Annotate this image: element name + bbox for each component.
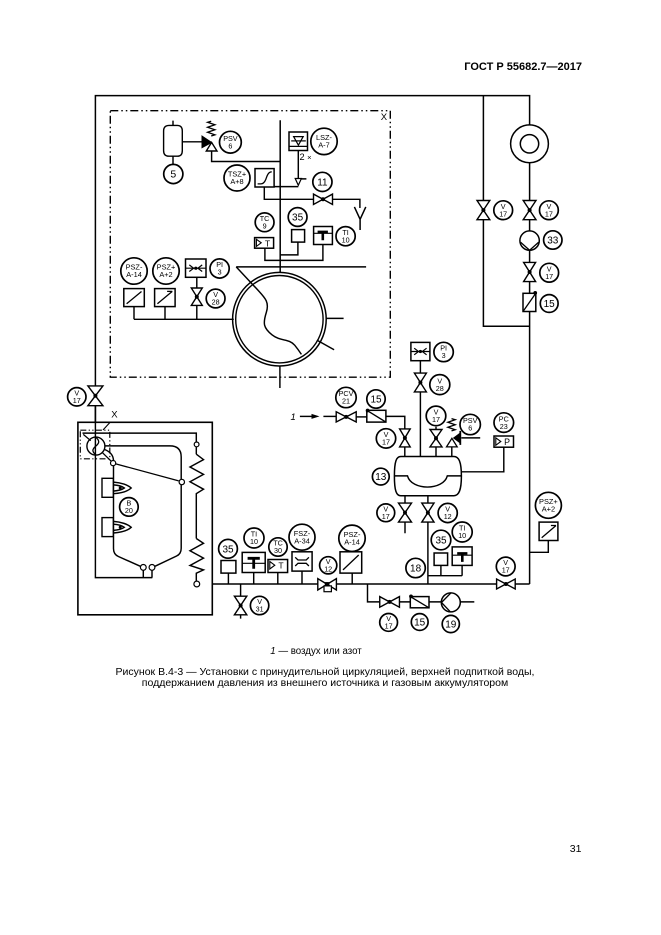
tag circle PC 23 [494,413,514,433]
tag circle TI 10 (steam) [336,227,355,246]
svg-text:15: 15 [414,618,426,629]
wire TC9 box to TT box [265,245,323,261]
svg-text:3: 3 [218,268,222,277]
vent to atmosphere symbol [354,207,365,230]
wire accumulator bottom stubs [405,496,428,584]
valve V17 (make-up line) [380,597,400,608]
safety valve PSV6 spring (accumulator) [448,419,455,431]
svg-text:17: 17 [73,396,81,405]
tag circle B 20 [120,498,139,517]
tag circle TC 30 [269,538,287,556]
safety valve PSV6a spring [208,121,215,136]
tag circle V 17 (riser upper) [540,201,559,220]
wire safety valve discharge to steam line [212,151,281,162]
wire filter to valve V17 (feed) [386,416,405,429]
node circle on jacket right [179,479,184,484]
svg-text:3: 3 [442,351,446,360]
svg-text:20: 20 [125,506,133,515]
svg-text:17: 17 [382,512,390,521]
tag circle 33 [544,231,562,249]
valve V12 (make-up control) [318,579,337,590]
filter 15 (feed line) [366,409,386,423]
wire left riser into boiler [95,406,152,578]
svg-text:12: 12 [324,565,332,574]
svg-text:6: 6 [228,141,232,150]
wire PCV to filter 15 [356,416,366,418]
instrument box PSZ+A+2 (right, rising char.) [539,522,558,540]
svg-text:A-7: A-7 [318,141,330,150]
svg-text:5: 5 [170,169,176,181]
tag circle V 17 (feed) [376,429,395,448]
instrument box PI3 damper (left) [186,259,207,277]
svg-text:30: 30 [274,546,282,555]
valve V17 (bypass) [477,201,490,220]
tag circle 15 (riser) [540,295,558,313]
valve V31 (drain) [234,596,246,615]
wire TSZ box to valve 11 [264,187,313,199]
wire boiler top heating loop [83,433,197,454]
svg-text:A-34: A-34 [294,536,310,545]
burner 1 flame [113,482,131,494]
dash-dot boundary X (steam side enclosure) [110,111,390,378]
tag circle 35 (bottom row) [219,539,238,558]
tag circle PSZ+ A+2 (left) [153,258,179,284]
valve PCV21 (pressure control) [336,412,356,422]
tag circle FSZ- A-34 [289,524,315,550]
burner 2 box [102,518,113,537]
svg-text:19: 19 [445,620,457,631]
instrument box TSZ+A+8 (transfer char.) [255,169,274,187]
instrument box TT (temperature transmitter, steam) [314,227,333,245]
valve V12 actuator box [324,586,331,592]
svg-text:17: 17 [502,566,510,575]
tag circle PSZ- A-14 (left) [121,258,147,284]
tag circle 5 [164,164,183,183]
tag circle TC 9 [255,213,274,232]
tag circle TSZ+ A+8 [224,165,250,191]
wire PI3 box to valve V28 left [196,277,198,319]
instrument box TT (feed water) [452,547,472,566]
svg-text:31: 31 [256,605,264,614]
tag circle TI 10 (bottom row) [244,528,264,548]
wire heating loop tangent into fan [83,434,90,440]
wire PSZ+ box to riser [530,541,549,553]
wire bypass branch (left drop) [483,96,529,327]
tag circle PSV 6 (vessel 5) [220,131,242,153]
valve V17 (accumulator drain) [399,503,412,522]
node circle jacket bottom left [140,565,146,571]
heating coil upper (zigzag) [190,454,204,538]
svg-text:17: 17 [499,209,507,218]
svg-text:10: 10 [458,531,466,540]
wire boiler lower-right diagonal stub [317,340,334,350]
wire TSZ box to LSZ arrow [274,186,298,188]
boiler (steam generator) circle [233,272,327,366]
wire sampling line above boiler [236,266,366,268]
tag circle LSZ- A-7 [311,128,337,154]
feed arrow [300,415,313,417]
svg-text:15: 15 [544,299,556,310]
tag circle PI 3 (accumulator) [434,342,453,361]
svg-text:28: 28 [212,298,220,307]
tag circle V 28 (accumulator) [430,375,450,395]
svg-text:T: T [265,238,271,248]
svg-text:17: 17 [385,622,393,631]
instrument box TT (bottom row) [242,552,265,572]
tag circle PSV 6 (accumulator) [460,414,480,434]
svg-text:23: 23 [500,422,508,431]
vessel 5 body [164,125,183,156]
svg-text:9: 9 [263,222,267,231]
svg-text:2 ×: 2 × [300,152,312,162]
tag circle PSZ+ A+2 (right) [535,492,561,518]
valve V17 (bottom line right) [497,579,516,589]
tag circle PCV 21 [336,387,356,407]
air vent / separator (double circle) [511,125,549,163]
wire PSZ boxes to boiler [134,307,234,320]
svg-text:10: 10 [250,537,258,546]
svg-text:6: 6 [468,424,472,433]
instrument stubs to main line [228,571,352,584]
furnace fan circle [87,437,105,455]
svg-text:X: X [381,112,388,123]
instrument box PSZ-A-14 (left, rising char.) [124,289,145,307]
filter 15 (make-up line) [409,595,429,608]
wire main bottom line [197,583,529,585]
tag circle V 17 (bypass) [494,201,513,220]
wire main steam line (vertical) [279,120,281,273]
tag circle V 17 (accumulator vent) [426,406,446,426]
valve V28 (left gauge valve) [191,288,202,305]
svg-text:18: 18 [410,564,422,575]
tag circle V 12 (accumulator outlet) [438,503,457,522]
svg-text:P: P [504,437,510,447]
tag circle 35 (steam line) [288,208,307,227]
valve 11 (steam vent) [314,194,333,204]
tag circle V 17 (riser lower) [540,263,559,282]
tag circle 11 [313,172,332,191]
wire LSZ drop line [298,151,306,179]
filter 15 (riser) [523,291,537,312]
svg-text:10: 10 [342,235,350,244]
wire right riser through pump group [529,125,531,584]
tag circle V 17 (bottom line right) [496,557,515,576]
tag circle PI 3 (left) [210,259,229,278]
valve V12 (accumulator outlet) [422,503,434,522]
svg-text:33: 33 [547,236,559,247]
wire main loop: left riser + top header [95,96,529,437]
svg-text:35: 35 [222,544,234,555]
valve V17 (riser lower) [524,262,536,281]
dash-dot box around furnace fan (node X) [80,430,110,459]
svg-text:1: 1 [291,412,296,423]
instrument box FSZ (flow venturi) [292,552,312,571]
tag circle 15 (feed line) [367,390,385,408]
instrument box TC30 (>T) [268,560,288,573]
instrument box TC9 (>T temperature controller) [255,238,274,249]
svg-text:T: T [278,561,284,571]
vessel 5 (expansion tank) stems [172,121,174,165]
svg-text:28: 28 [436,384,444,393]
svg-text:17: 17 [432,415,440,424]
wire boiler right outlet stub [326,317,343,319]
tag circle PSZ- A-14 (bottom row) [339,525,365,551]
boiler unit enclosure [78,422,212,615]
wire PSV discharge [461,437,480,439]
svg-text:35: 35 [435,536,447,547]
safety valve PSV6 (accumulator, angle) [447,438,458,447]
node circle on jacket left [111,461,116,466]
valve V17 (boiler inlet, left riser) [88,386,103,406]
wire accumulator top stubs [405,392,452,457]
svg-text:A+2: A+2 [159,270,172,279]
svg-text:17: 17 [545,272,553,281]
tag circle V 12 (make-up) [320,557,337,574]
tag circle 15 (make-up line) [411,614,428,631]
wire vessel outlet to safety valve [182,141,202,143]
tag circle 18 [406,558,425,577]
wire feed to PCV valve [323,415,336,417]
tag circle V 28 (left) [206,289,225,308]
node circle main line start [194,581,200,587]
svg-text:21: 21 [342,397,350,406]
tag circle V 31 [250,596,268,614]
tag circle TI 10 (feed water) [452,522,472,542]
svg-text:17: 17 [382,438,390,447]
instrument box 35 (bottom row) [221,561,236,574]
instrument box PSZ-A-14 (bottom row) [340,552,362,573]
tag circle V 17 (boiler inlet) [68,388,86,406]
valve V28 (accumulator gauge) [414,373,426,392]
node circle jacket bottom right [149,565,155,571]
heating coil lower (zigzag) [190,539,204,582]
safety valve (angle) at vessel 5 [202,136,212,148]
wire accumulator to PC23 [461,447,504,472]
burner 2 flame [113,521,131,533]
svg-text:13: 13 [375,472,387,483]
LSZ arrow (open, down) [295,179,301,186]
svg-text:X: X [111,409,118,420]
tag circle V 17 (accumulator drain) [377,504,395,522]
valve V17 (riser upper) [523,201,536,220]
wire V31 stub [240,584,242,619]
wire valve 11 to vent [333,199,360,208]
svg-text:12: 12 [444,512,452,521]
valve V17 (accumulator vent) [430,430,442,447]
wire instrument boxes to drain line [428,565,462,575]
svg-text:A+8: A+8 [230,177,243,186]
instrument box PI3 damper (accumulator) [411,342,430,360]
instrument box PC23 (>P pressure controller) [494,436,514,447]
node circle on coil line top [194,442,199,447]
boiler internal flow curve [236,267,301,355]
instrument box LSZ-A-7 (level switch) [289,132,308,151]
instrument box 35 (steam line) [292,230,305,243]
wire box35 to steam line [280,242,298,255]
wire furnace diagonal (burner feed) [103,453,179,481]
boiler water jacket outline [105,446,182,566]
svg-text:A-14: A-14 [126,270,142,279]
svg-text:15: 15 [370,395,382,406]
svg-text:11: 11 [317,178,328,189]
circulation pump 33 [520,231,539,250]
make-up pump 19 [441,593,460,612]
svg-text:35: 35 [292,213,304,224]
tag circle 13 [372,468,389,485]
tag circle V 17 (make-up line) [380,614,398,632]
svg-text:A+2: A+2 [542,505,555,514]
valve V17 (feed to accumulator) [400,429,411,447]
tag circle 19 [442,615,459,632]
instrument box PSZ+A+2 (left, rising char.) [155,289,176,307]
tag circle 35 (feed water) [431,530,451,550]
wire boiler bottom drain stub [279,366,281,388]
wire PI3 box to valve V28 [419,361,421,374]
burner 1 box [102,478,113,497]
svg-text:17: 17 [545,209,553,218]
wire make-up branch [368,584,475,602]
gas accumulator vessel 13 [394,457,461,496]
svg-text:A-14: A-14 [344,538,360,547]
instrument box 35 (feed water) [434,553,448,565]
